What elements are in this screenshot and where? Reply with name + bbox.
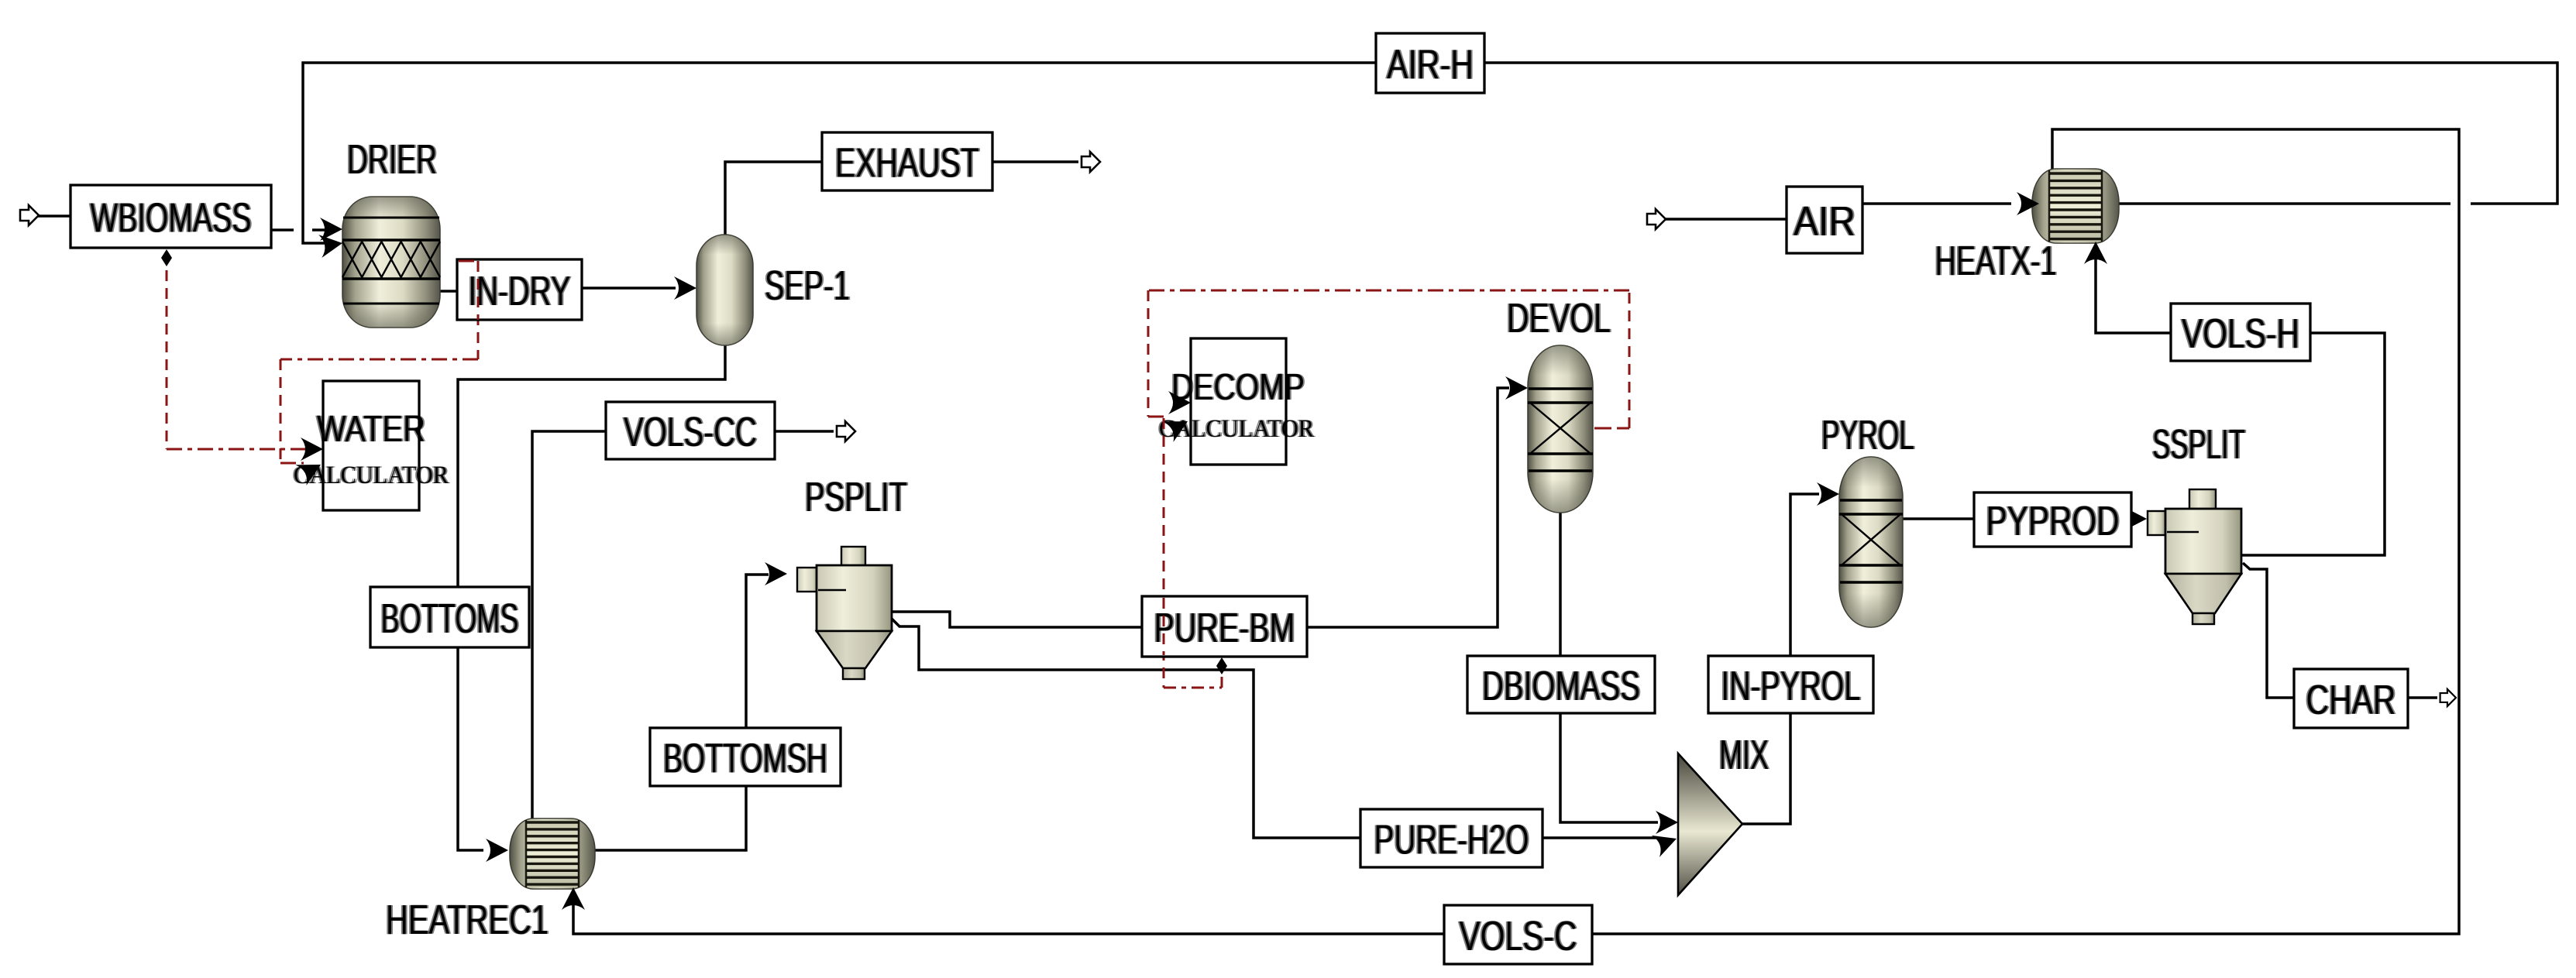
- wire AIR-H loop (HEATX-1 outlet to DRIER inlet): [303, 63, 2557, 243]
- svg-text:WBIOMASS: WBIOMASS: [91, 195, 252, 242]
- open arrow export VOLS-CC: [837, 421, 855, 441]
- arrow into WATER (from IN-DRY line): [295, 455, 326, 486]
- diamond arrow into PURE-BM: [1216, 657, 1227, 674]
- svg-text:PSPLIT: PSPLIT: [805, 474, 907, 520]
- label DRIER: [346, 136, 439, 183]
- svg-text:DEVOL: DEVOL: [1507, 295, 1611, 341]
- label SEP-1: [763, 263, 851, 309]
- red wire IN-DRY to WATER (horizontal 2): [280, 462, 304, 465]
- red wire DEVOL to DECOMP (vertical): [1628, 290, 1631, 428]
- wire PYPROD to SSPLIT: [2131, 517, 2136, 520]
- stream label BOTTOMSH: [650, 728, 841, 786]
- open arrow feed WBIOMASS: [20, 205, 39, 225]
- wire IN-DRY to SEP-1: [582, 287, 676, 290]
- wire SSPLIT to CHAR: [2243, 563, 2294, 698]
- arrow into PSPLIT: [765, 562, 787, 585]
- red wire crossing IN-DRY box vertical: [477, 261, 480, 320]
- arrow into MIX (DBIOMASS): [1656, 811, 1678, 834]
- calculator DECOMP box: [1157, 338, 1316, 465]
- wire gap at crossing (391,297): [294, 227, 312, 233]
- svg-text:VOLS-CC: VOLS-CC: [624, 409, 757, 455]
- svg-text:EXHAUST: EXHAUST: [835, 140, 979, 187]
- block DRIER (drum icon): [342, 197, 440, 328]
- svg-text:HEATX-1: HEATX-1: [1935, 238, 2057, 284]
- svg-text:AIR: AIR: [1794, 198, 1855, 245]
- stream label IN-DRY: [457, 259, 582, 320]
- stream label PYPROD: [1974, 492, 2131, 547]
- stream label PURE-BM: [1142, 596, 1307, 657]
- svg-text:VOLS-H: VOLS-H: [2182, 311, 2299, 357]
- arrow into WATER (from WBIOMASS line): [301, 438, 323, 461]
- red wire IN-DRY to WATER (vertical 1): [477, 261, 480, 359]
- open arrow export EXHAUST: [1082, 152, 1100, 172]
- wire HEATX-1 top to VOLS-C line: [573, 129, 2459, 934]
- block MIX (mixer icon): [1678, 753, 1742, 895]
- wire gap at crossing (3174,263): [2450, 201, 2471, 207]
- stream label VOLS-C: [1444, 905, 1592, 964]
- stream label AIR: [1787, 187, 1862, 253]
- arrow into HEATX-1 (VOLS-H, bottom): [2084, 242, 2107, 264]
- wire VOLS-CC to export arrow: [775, 430, 834, 433]
- stream label PURE-H2O: [1360, 809, 1543, 867]
- block HEATX-1 (heater icon): [2032, 169, 2119, 243]
- stream label IN-PYROL: [1708, 656, 1873, 713]
- block DEVOL (RYield reactor icon): [1528, 345, 1593, 513]
- label MIX: [1718, 732, 1770, 778]
- stream label CHAR: [2294, 669, 2408, 728]
- wire SSPLIT to VOLS-H: [2241, 333, 2385, 555]
- wire PSPLIT to PURE-H2O: [892, 619, 1360, 838]
- red wire crossing PURE-BM box: [1163, 598, 1165, 655]
- arrow into MIX (PURE-H2O): [1652, 828, 1681, 857]
- label PSPLIT: [803, 474, 909, 520]
- svg-text:DRIER: DRIER: [347, 136, 437, 183]
- wire CHAR to export arrow: [2408, 696, 2437, 699]
- svg-text:IN-PYROL: IN-PYROL: [1721, 663, 1861, 709]
- stream label VOLS-CC: [606, 402, 775, 459]
- block PYROL (RYield reactor icon): [1839, 457, 1903, 627]
- arrow into DRIER (AIR-H): [318, 232, 344, 258]
- svg-text:AIR-H: AIR-H: [1387, 42, 1474, 88]
- wire AIR to HEATX-1: [1862, 202, 2011, 205]
- wire EXHAUST to export arrow: [992, 160, 1078, 163]
- wire feed to WBIOMASS: [37, 214, 71, 218]
- stream label VOLS-H: [2171, 304, 2310, 361]
- arrow into SSPLIT: [2124, 507, 2147, 530]
- block SEP-1 (flash vessel icon): [696, 235, 753, 345]
- label SSPLIT: [2151, 421, 2247, 468]
- wire WBIOMASS to DRIER: [271, 228, 325, 232]
- wire HEATREC1 to PSPLIT via BOTTOMSH: [595, 575, 769, 850]
- label HEATREC1: [384, 897, 550, 943]
- red wire DECOMP to PURE-BM (up stub): [1221, 660, 1223, 688]
- wire SEP-1 bottoms to HEATREC1: [458, 345, 725, 850]
- red wire DEVOL to DECOMP (horizontal): [1148, 290, 1629, 292]
- svg-text:BOTTOMSH: BOTTOMSH: [663, 736, 827, 782]
- block HEATREC1 (heater icon): [510, 818, 595, 889]
- diamond arrow into WBIOMASS: [161, 249, 172, 266]
- svg-text:PYPROD: PYPROD: [1986, 498, 2120, 544]
- red wire DECOMP inlet (vertical): [1147, 290, 1150, 417]
- open arrow feed AIR: [1647, 209, 1666, 229]
- wire PYROL to PYPROD: [1902, 517, 1974, 520]
- red wire crossing IN-DRY box: [459, 260, 478, 263]
- wire DRIER to IN-DRY: [440, 290, 459, 293]
- stream label WBIOMASS: [71, 185, 271, 248]
- arrow into SEP-1: [674, 276, 696, 300]
- red wire IN-DRY to WATER (horizontal 1): [280, 359, 478, 361]
- red wire DECOMP to PURE-BM (horizontal): [1164, 687, 1222, 689]
- wire DBIOMASS to MIX: [1560, 713, 1658, 822]
- label DEVOL: [1505, 295, 1612, 341]
- svg-text:DBIOMASS: DBIOMASS: [1482, 663, 1640, 709]
- svg-text:VOLS-C: VOLS-C: [1460, 913, 1577, 959]
- open arrow export CHAR: [2440, 689, 2456, 706]
- arrow into HEATREC1 (VOLS-C, bottom): [562, 887, 585, 910]
- calculator WATER box: [292, 381, 450, 510]
- wire PURE-H2O to MIX: [1543, 836, 1658, 839]
- svg-text:IN-DRY: IN-DRY: [469, 268, 571, 314]
- red wire WATER to WBIOMASS (horizontal): [167, 448, 308, 451]
- arrow into HEATREC1 (BOTTOMS): [486, 839, 508, 862]
- wire feed to AIR: [1666, 218, 1787, 221]
- arrow into DECOMP (lower): [1162, 411, 1193, 442]
- svg-text:PYROL: PYROL: [1821, 412, 1914, 458]
- label PYROL: [1820, 412, 1916, 458]
- arrow into DRIER (WBIOMASS): [320, 218, 342, 241]
- wire PSPLIT to PURE-BM: [892, 612, 1142, 627]
- arrow into DECOMP (upper): [1168, 391, 1191, 414]
- wire VOLS-H to HEATX-1: [2096, 248, 2171, 333]
- red wire IN-DRY to WATER stub: [459, 260, 478, 263]
- arrow into HEATX-1 (AIR): [2017, 192, 2039, 215]
- wire HEATREC1 top to VOLS-CC: [532, 431, 606, 818]
- wire MIX to PYROL via IN-PYROL: [1742, 494, 1819, 824]
- arrow into DEVOL: [1505, 376, 1528, 400]
- red wire DEVOL to DECOMP stub: [1594, 427, 1629, 430]
- svg-text:DECOMP: DECOMP: [1171, 367, 1305, 408]
- stream label DBIOMASS: [1467, 656, 1655, 713]
- stream label AIR-H: [1376, 33, 1484, 93]
- svg-text:CHAR: CHAR: [2306, 677, 2396, 723]
- arrow into PYROL: [1817, 482, 1839, 506]
- svg-text:SEP-1: SEP-1: [765, 263, 850, 309]
- svg-text:PURE-H2O: PURE-H2O: [1374, 817, 1529, 863]
- svg-text:WATER: WATER: [317, 409, 425, 450]
- wire DEVOL to DBIOMASS: [1559, 511, 1562, 656]
- red wire WATER to WBIOMASS (vertical): [166, 252, 168, 449]
- block PSPLIT (cyclone icon): [797, 547, 892, 679]
- block SSPLIT (cyclone icon): [2148, 489, 2241, 624]
- svg-text:BOTTOMS: BOTTOMS: [381, 595, 519, 642]
- svg-text:HEATREC1: HEATREC1: [386, 897, 549, 943]
- svg-text:SSPLIT: SSPLIT: [2152, 421, 2245, 468]
- svg-text:PURE-BM: PURE-BM: [1154, 605, 1295, 651]
- red wire IN-DRY to WATER (vertical 2): [280, 359, 282, 463]
- svg-text:MIX: MIX: [1719, 732, 1769, 778]
- red wire DECOMP inlet (horizontal): [1148, 416, 1166, 418]
- wire SEP-1 top to EXHAUST: [725, 162, 822, 236]
- wire PURE-BM to DEVOL: [1307, 388, 1509, 627]
- stream label EXHAUST: [822, 132, 992, 190]
- label HEATX-1: [1934, 238, 2058, 284]
- stream label BOTTOMS: [370, 587, 529, 647]
- red wire DECOMP to PURE-BM (vertical): [1163, 418, 1165, 688]
